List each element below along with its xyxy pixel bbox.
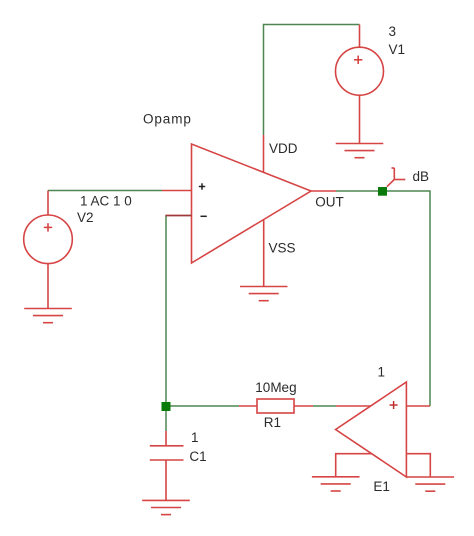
wire V2 to opamp + input — [48, 190, 162, 192]
pin VDD — [263, 135, 265, 173]
svg-text:1: 1 — [191, 430, 199, 445]
pin V1 top — [359, 25, 361, 48]
pin E1 output minus — [406, 454, 430, 477]
pin V1 bottom — [359, 95, 361, 143]
pin E1 input minus — [336, 454, 372, 477]
wire feedback vertical — [165, 216, 167, 432]
ground under C1 — [142, 500, 190, 514]
pin E1 input plus — [336, 405, 371, 407]
pin R1 left — [239, 405, 257, 407]
svg-text:OUT: OUT — [315, 194, 344, 209]
pin C1 bottom — [165, 460, 167, 500]
node OUT junction — [378, 187, 387, 196]
svg-text:1: 1 — [378, 364, 386, 379]
voltage source V1 — [336, 47, 384, 95]
pin VSS — [263, 220, 265, 287]
op-amp minus input marker — [201, 215, 207, 217]
svg-text:E1: E1 — [373, 479, 390, 494]
pin E1 output plus — [406, 405, 430, 407]
capacitor C1 — [150, 446, 184, 460]
probe dB — [387, 168, 405, 187]
wire node to R1 — [166, 405, 239, 407]
pin noninverting input — [162, 190, 192, 192]
ground under V2 — [24, 309, 72, 323]
pin R1 right — [294, 405, 313, 407]
pin V2 bottom — [47, 264, 49, 309]
svg-text:C1: C1 — [189, 449, 206, 464]
wire OUT to right corner — [336, 191, 430, 406]
op-amp U1 body — [192, 144, 312, 263]
controlled source E1 body — [336, 382, 407, 477]
wire R1 to E1 — [313, 405, 336, 407]
svg-text:1 AC 1 0: 1 AC 1 0 — [80, 194, 132, 209]
E1 plus marker — [390, 401, 398, 409]
pin C1 top — [165, 431, 167, 446]
pin inverting input (wire overlap) — [165, 215, 191, 217]
ground under E1 left — [312, 477, 360, 491]
ground under V1 — [336, 144, 384, 158]
svg-text:V2: V2 — [77, 210, 94, 225]
svg-text:3: 3 — [389, 24, 397, 39]
svg-text:Opamp: Opamp — [143, 111, 192, 126]
ground under E1 right — [407, 477, 455, 491]
resistor R1 — [257, 399, 294, 413]
pin V2 top — [47, 191, 49, 216]
svg-text:VDD: VDD — [269, 141, 298, 156]
svg-text:V1: V1 — [389, 42, 406, 57]
op-amp plus input marker — [199, 183, 205, 189]
node feedback junction — [162, 402, 171, 411]
svg-text:dB: dB — [413, 169, 430, 184]
svg-text:VSS: VSS — [269, 240, 296, 255]
wire top VDD rail — [264, 25, 360, 136]
svg-text:R1: R1 — [264, 415, 281, 430]
pin OUT — [311, 190, 336, 192]
ground under VSS — [240, 287, 288, 301]
voltage source V2 — [24, 215, 73, 264]
svg-text:10Meg: 10Meg — [255, 380, 296, 395]
